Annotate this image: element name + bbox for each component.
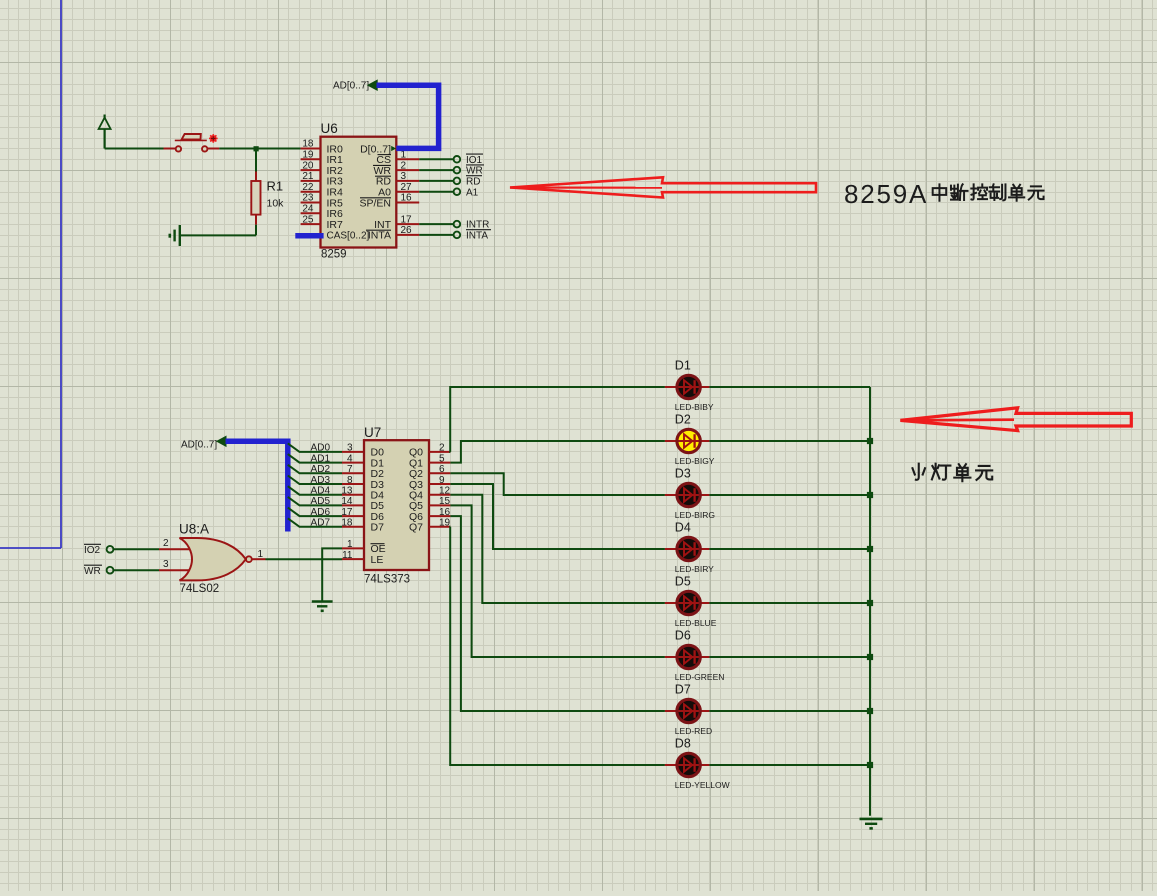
svg-text:IR7: IR7 — [327, 219, 344, 231]
svg-text:17: 17 — [341, 507, 353, 518]
LED D8 (LED-YELLOW) — [665, 753, 710, 776]
svg-text:16: 16 — [401, 193, 413, 204]
U7 pin 6 Q2 — [409, 464, 450, 480]
svg-text:1: 1 — [258, 549, 264, 560]
U7 pin 18 D7 — [341, 518, 384, 534]
wire Q3 to D4 — [450, 484, 665, 549]
U6 pin 3 RD — [375, 171, 419, 188]
svg-text:2: 2 — [401, 160, 407, 171]
svg-text:D4: D4 — [675, 521, 691, 535]
U6 pin 19 IR1 — [301, 150, 343, 167]
bus arrowhead into D[0..7] — [391, 146, 396, 151]
svg-text:IO1: IO1 — [466, 155, 483, 166]
wire D2 to cathode rail — [709, 440, 870, 442]
svg-text:1: 1 — [347, 539, 353, 550]
wire Q2 to D3 — [450, 473, 665, 495]
svg-text:LED-BLUE: LED-BLUE — [675, 618, 717, 628]
U7 pin 1 OE — [342, 539, 386, 555]
junction node rail D8 — [867, 762, 873, 768]
wire to terminal INTR — [419, 223, 453, 225]
svg-text:21: 21 — [302, 171, 314, 182]
button right terminal — [202, 146, 207, 151]
wire button to IR0 — [219, 148, 300, 150]
button toggle star (red) — [209, 134, 218, 143]
wire D1 to cathode rail — [709, 386, 870, 388]
svg-text:19: 19 — [439, 518, 451, 529]
wire to terminal IO1 — [419, 158, 453, 160]
NOR gate U8:A body — [180, 538, 246, 580]
svg-text:16: 16 — [439, 507, 451, 518]
svg-text:8259A: 8259A — [844, 179, 928, 209]
svg-text:SP/EN: SP/EN — [359, 197, 391, 209]
svg-text:25: 25 — [302, 214, 314, 225]
terminal IO2 — [84, 544, 113, 556]
svg-text:IO2: IO2 — [84, 545, 101, 556]
svg-text:U8:A: U8:A — [179, 522, 209, 537]
svg-text:74LS02: 74LS02 — [180, 583, 220, 595]
U7 pin 8 D3 — [342, 475, 384, 491]
svg-text:24: 24 — [302, 204, 314, 215]
junction node rail D6 — [867, 654, 873, 660]
U6 pin 21 IR3 — [301, 171, 343, 188]
wire R1 to ground — [180, 225, 256, 236]
bus entry wire AD7 — [288, 518, 342, 529]
svg-text:AD2: AD2 — [311, 464, 331, 475]
svg-text:13: 13 — [341, 486, 353, 497]
wire Q4 to D5 — [450, 495, 665, 603]
svg-text:2: 2 — [439, 443, 445, 454]
svg-text:D1: D1 — [675, 359, 691, 373]
bus entry wire AD3 — [288, 475, 342, 486]
op chip U6 body — [321, 137, 397, 248]
U7 pin 15 Q5 — [409, 496, 451, 512]
cathode rail (right vertical) — [869, 387, 871, 816]
U6 pin 24 IR6 — [301, 204, 343, 221]
U7 pin 5 Q1 — [409, 453, 450, 469]
LED D6 (LED-GREEN) — [665, 645, 710, 668]
terminal WR — [454, 165, 484, 177]
terminal A1 — [454, 187, 479, 198]
U7 pin 7 D2 — [342, 464, 384, 480]
svg-text:19: 19 — [302, 150, 314, 161]
svg-text:AD7: AD7 — [311, 518, 331, 529]
U6 pin 26 INTA — [366, 225, 419, 242]
terminal WR (U8) — [84, 565, 113, 577]
wire Q7 to D8 — [450, 527, 665, 765]
junction node — [254, 146, 259, 151]
U6 pin 25 IR7 — [301, 214, 343, 231]
U7 pin 13 D4 — [341, 486, 384, 502]
svg-text:18: 18 — [341, 518, 353, 529]
wire Q0 to D1 — [450, 387, 665, 452]
ground (below OE) — [312, 602, 333, 611]
svg-text:D7: D7 — [675, 683, 691, 697]
LED D3 (LED-BIRG) — [665, 483, 710, 506]
resistor R1 — [251, 181, 260, 215]
R1 top stub — [255, 172, 257, 182]
U6 pin 27 A0 — [378, 182, 419, 199]
annotation arrow 2 (LED unit) — [900, 408, 1131, 431]
svg-text:LED-RED: LED-RED — [675, 726, 712, 736]
gate input stub pin 2 — [159, 538, 191, 549]
svg-text:27: 27 — [401, 182, 413, 193]
svg-text:LED-BIGY: LED-BIGY — [675, 456, 715, 466]
U6 pin 20 IR2 — [301, 160, 343, 177]
power symbol (+V arrow) — [99, 115, 111, 149]
wire to terminal A1 — [419, 191, 453, 193]
bus entry wire AD1 — [288, 453, 342, 464]
svg-text:15: 15 — [439, 496, 451, 507]
wire D7 to cathode rail — [709, 710, 870, 712]
U7 pin 3 D0 — [342, 443, 384, 459]
svg-text:D3: D3 — [675, 467, 691, 481]
bus AD[0..7] to U7 (blue) — [226, 441, 288, 531]
LED D2 (LED-BIGY) — [665, 429, 710, 452]
sheet border (blue corner) — [0, 0, 61, 548]
button left terminal — [176, 146, 181, 151]
U6 pin 16 SP/EN — [359, 193, 419, 210]
terminal INTR — [454, 220, 490, 231]
svg-text:LED-BIRG: LED-BIRG — [675, 510, 715, 520]
svg-text:INTA: INTA — [466, 231, 488, 242]
terminal RD — [454, 176, 482, 188]
bus AD[0..7] to U6 (blue) — [377, 85, 439, 148]
svg-text:18: 18 — [302, 139, 314, 150]
pushbutton cap — [175, 134, 207, 140]
svg-text:CAS[0..2]: CAS[0..2] — [327, 231, 370, 242]
svg-text:2: 2 — [163, 538, 169, 549]
U6 pin 18 IR0 — [301, 139, 343, 156]
CAS bus stub (blue) — [295, 233, 323, 239]
wire junction to R1 — [255, 149, 257, 172]
svg-text:AD0: AD0 — [311, 443, 331, 454]
U7 pin 14 D5 — [341, 496, 384, 512]
wire D3 to cathode rail — [709, 494, 870, 496]
svg-text:AD[0..7]: AD[0..7] — [181, 440, 217, 451]
LED D5 (LED-BLUE) — [665, 591, 710, 614]
button right pin stub — [208, 148, 220, 150]
annotation arrow 1 (8259A unit) — [510, 177, 816, 197]
ground (left, rotated) — [170, 225, 180, 246]
svg-text:10k: 10k — [267, 198, 285, 210]
U7 chip body — [364, 440, 429, 570]
U7 pin 4 D1 — [342, 453, 384, 469]
bus entry wire AD4 — [288, 486, 342, 497]
svg-text:11: 11 — [342, 550, 353, 561]
junction node rail D2 — [867, 438, 873, 444]
terminal INTA — [454, 230, 491, 242]
svg-text:5: 5 — [439, 453, 445, 464]
wire to terminal RD — [419, 180, 453, 182]
bus entry wire AD5 — [288, 496, 342, 507]
svg-text:R1: R1 — [267, 179, 284, 194]
R1 bottom stub — [255, 215, 257, 225]
svg-text:4: 4 — [347, 453, 353, 464]
NOR output bubble — [246, 556, 252, 562]
svg-text:26: 26 — [401, 225, 413, 236]
svg-text:AD4: AD4 — [311, 486, 331, 497]
gate input stub pin 3 — [159, 559, 191, 570]
U7 pin 19 Q7 — [409, 518, 451, 534]
svg-text:3: 3 — [163, 559, 169, 570]
U6 pin 23 IR5 — [301, 193, 343, 210]
bus terminal arrow (U7) — [217, 436, 226, 446]
LED D1 (LED-BIBY) — [665, 375, 710, 398]
svg-text:D5: D5 — [675, 575, 691, 589]
svg-text:7: 7 — [347, 464, 353, 475]
wire D5 to cathode rail — [709, 602, 870, 604]
bus entry wire AD2 — [288, 464, 342, 475]
bus entry wire AD6 — [288, 507, 342, 518]
svg-text:9: 9 — [439, 475, 445, 486]
button left pin stub — [164, 148, 176, 150]
U7 pin 12 Q4 — [409, 486, 451, 502]
svg-text:D7: D7 — [371, 522, 385, 534]
svg-text:U6: U6 — [321, 121, 338, 136]
U6 pin 1 CS — [376, 150, 419, 167]
gate output stub pin 1 — [252, 549, 266, 560]
wire OE to ground — [322, 548, 342, 601]
wire gate output to LE — [266, 558, 343, 560]
U7 pin 11 LE — [342, 550, 383, 566]
svg-text:D8: D8 — [675, 737, 691, 751]
wire D8 to cathode rail — [709, 764, 870, 766]
svg-text:AD1: AD1 — [311, 453, 331, 464]
terminal IO1 — [454, 154, 483, 166]
svg-text:3: 3 — [347, 443, 353, 454]
svg-text:AD3: AD3 — [311, 475, 331, 486]
svg-text:20: 20 — [302, 160, 314, 171]
svg-text:LE: LE — [371, 554, 384, 566]
U6 pin 17 INT — [374, 214, 419, 231]
svg-text:AD5: AD5 — [311, 496, 331, 507]
U6 pin 22 IR4 — [301, 182, 343, 199]
svg-text:LED-BIRY: LED-BIRY — [675, 564, 714, 574]
svg-text:3: 3 — [401, 171, 407, 182]
wire to terminal INTA — [419, 234, 453, 236]
bus terminal arrow — [368, 80, 377, 90]
U7 pin 9 Q3 — [409, 475, 450, 491]
bus entry wire AD0 — [288, 443, 342, 454]
svg-text:22: 22 — [302, 182, 314, 193]
svg-text:Q7: Q7 — [409, 522, 423, 534]
svg-text:WR: WR — [84, 566, 101, 577]
svg-text:AD6: AD6 — [311, 507, 331, 518]
svg-text:LED-YELLOW: LED-YELLOW — [675, 780, 730, 790]
svg-text:WR: WR — [466, 166, 483, 177]
svg-text:23: 23 — [302, 193, 314, 204]
wire Q6 to D7 — [450, 516, 665, 711]
svg-text:8259: 8259 — [321, 249, 347, 261]
junction node rail D4 — [867, 546, 873, 552]
U7 pin 16 Q6 — [409, 507, 451, 523]
U7 pin 2 Q0 — [409, 443, 450, 459]
svg-text:8: 8 — [347, 475, 353, 486]
svg-text:AD[0..7]: AD[0..7] — [333, 81, 369, 92]
svg-text:U7: U7 — [364, 425, 381, 440]
wire IO2 to gate — [114, 548, 160, 550]
junction node rail D7 — [867, 708, 873, 714]
svg-text:INTR: INTR — [466, 220, 489, 231]
svg-text:INTA: INTA — [368, 230, 391, 242]
svg-text:RD: RD — [466, 177, 480, 188]
junction node rail D3 — [867, 492, 873, 498]
svg-text:A1: A1 — [466, 187, 479, 198]
wire Q5 to D6 — [450, 505, 665, 657]
svg-text:6: 6 — [439, 464, 445, 475]
svg-text:17: 17 — [401, 214, 413, 225]
ground (bottom right) — [860, 819, 883, 829]
svg-text:D[0..7]: D[0..7] — [360, 143, 391, 155]
wire D4 to cathode rail — [709, 548, 870, 550]
U6 pin 2 WR — [373, 160, 419, 177]
svg-text:14: 14 — [341, 496, 353, 507]
wire Q1 to D2 — [450, 441, 665, 463]
caption LED unit — [912, 464, 925, 480]
U7 pin 17 D6 — [341, 507, 384, 523]
junction node rail D5 — [867, 600, 873, 606]
LED D4 (LED-BIRY) — [665, 537, 710, 560]
svg-text:74LS373: 74LS373 — [364, 574, 410, 586]
LED D7 (LED-RED) — [665, 699, 710, 722]
wire D6 to cathode rail — [709, 656, 870, 658]
wire to terminal WR — [419, 169, 453, 171]
svg-text:D2: D2 — [675, 413, 691, 427]
wire power to button — [105, 148, 164, 150]
svg-text:LED-BIBY: LED-BIBY — [675, 402, 714, 412]
svg-text:12: 12 — [439, 486, 451, 497]
svg-text:LED-GREEN: LED-GREEN — [675, 672, 725, 682]
svg-text:D6: D6 — [675, 629, 691, 643]
wire WR to gate — [114, 569, 160, 571]
